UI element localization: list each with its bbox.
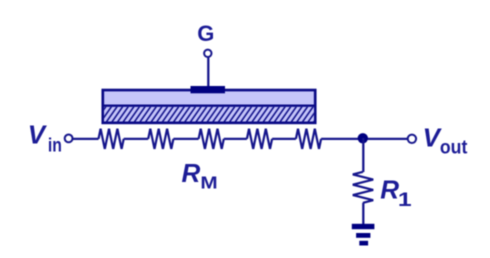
- svg-text:out: out: [440, 136, 467, 158]
- svg-text:R: R: [182, 158, 201, 188]
- svg-text:in: in: [48, 134, 62, 156]
- svg-text:M: M: [200, 173, 217, 193]
- svg-text:G: G: [197, 21, 214, 46]
- svg-text:R: R: [380, 175, 399, 205]
- svg-text:1: 1: [398, 189, 412, 211]
- svg-text:V: V: [28, 120, 48, 150]
